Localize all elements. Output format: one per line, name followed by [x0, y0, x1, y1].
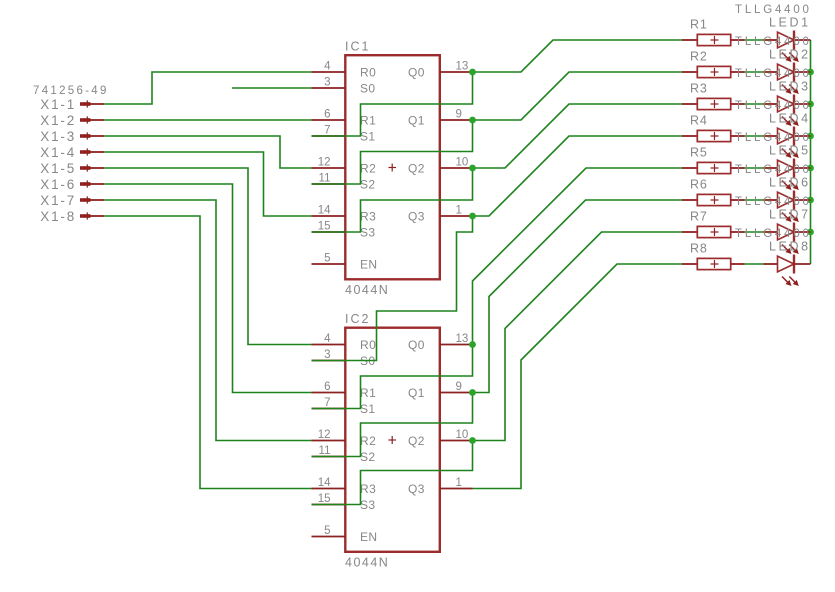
- svg-text:TLLG4400: TLLG4400: [735, 68, 812, 80]
- resistor R8: [682, 241, 745, 269]
- wire X1-1 to IC1 pin4 R0: [104, 72, 312, 104]
- svg-text:R1: R1: [360, 114, 376, 128]
- svg-text:741256-49: 741256-49: [33, 85, 109, 97]
- junction node J9: [807, 101, 814, 108]
- svg-text:S1: S1: [360, 130, 375, 144]
- wire IC1 Q1 feedback to pin11 S2: [312, 120, 473, 184]
- connector pin X1-6: [40, 177, 104, 192]
- svg-text:TLLG4400: TLLG4400: [735, 100, 812, 112]
- connector X1 header label 741256-49: [33, 85, 109, 97]
- svg-text:Q3: Q3: [408, 482, 425, 496]
- svg-text:12: 12: [318, 157, 331, 169]
- svg-text:IC1: IC1: [345, 39, 370, 53]
- svg-text:10: 10: [456, 157, 469, 169]
- IC1 left pin 11 (S2): [312, 173, 376, 192]
- junction node J6: [469, 389, 476, 396]
- connector pin X1-5: [40, 161, 104, 176]
- IC1 right pin 13 (Q0): [408, 61, 473, 80]
- svg-text:R6: R6: [690, 177, 708, 191]
- resistor R5: [682, 145, 745, 173]
- wire IC1 Q2 feedback to pin15 S3: [312, 168, 473, 232]
- wire X1-6 to IC2 pin6 R1: [104, 184, 312, 393]
- IC2 left pin 12 (R2): [312, 429, 377, 448]
- svg-text:S2: S2: [360, 450, 375, 464]
- resistor R3: [682, 81, 745, 109]
- svg-text:R5: R5: [690, 145, 708, 159]
- svg-text:TLLG4400: TLLG4400: [735, 228, 812, 240]
- junction node J4: [469, 213, 476, 220]
- LED5 TLLG4400: [735, 132, 812, 190]
- junction node J11: [807, 165, 814, 172]
- junction node J7: [469, 437, 476, 444]
- LED1 TLLG4400: [735, 4, 812, 62]
- svg-text:Q1: Q1: [408, 114, 425, 128]
- svg-text:1: 1: [456, 205, 462, 217]
- svg-text:13: 13: [456, 333, 469, 345]
- resistor R4: [682, 113, 745, 141]
- svg-text:EN: EN: [360, 258, 377, 272]
- svg-text:LED7: LED7: [769, 208, 811, 222]
- LED8 TLLG4400: [735, 228, 812, 286]
- LED3 TLLG4400: [735, 68, 812, 126]
- svg-text:R3: R3: [690, 81, 708, 95]
- wire R5 to LED5: [745, 167, 764, 169]
- svg-text:S3: S3: [360, 498, 375, 512]
- wire IC1 Q3 to IC2 pin3 S0: [312, 216, 473, 361]
- svg-text:IC2: IC2: [345, 312, 370, 326]
- svg-text:6: 6: [324, 381, 330, 393]
- svg-text:3: 3: [324, 77, 330, 89]
- svg-text:S3: S3: [360, 226, 375, 240]
- svg-text:4044N: 4044N: [345, 283, 389, 297]
- wire R7 to LED7: [745, 231, 764, 233]
- LED7 TLLG4400: [735, 196, 812, 254]
- IC2 left pin 5 (EN): [312, 525, 378, 544]
- svg-text:9: 9: [456, 381, 462, 393]
- IC1 polarity plus mark: [389, 164, 397, 172]
- svg-text:R1: R1: [360, 386, 376, 400]
- IC1 left pin 6 (R1): [312, 109, 377, 128]
- wire X1-2 to IC1 pin6 R1: [104, 119, 312, 121]
- wire R4 to LED4: [745, 135, 764, 137]
- svg-text:TLLG4400: TLLG4400: [735, 132, 812, 144]
- svg-text:R1: R1: [690, 17, 708, 31]
- wire IC1 Q0 to R1: [473, 40, 683, 72]
- wire IC1 Q3 to R4: [473, 136, 683, 216]
- connector pin X1-4: [40, 145, 104, 160]
- connector pin X1-7: [40, 193, 104, 208]
- junction node J1: [469, 69, 476, 76]
- wire R6 to LED6: [745, 199, 764, 201]
- svg-text:LED4: LED4: [769, 112, 811, 126]
- svg-text:15: 15: [318, 493, 331, 505]
- IC2 left pin 7 (S1): [312, 397, 376, 416]
- svg-text:Q3: Q3: [408, 210, 425, 224]
- svg-text:5: 5: [324, 525, 330, 537]
- svg-text:Q2: Q2: [408, 162, 425, 176]
- wire IC2 Q1 feedback to pin11 S2: [312, 393, 473, 457]
- junction node J2: [469, 117, 476, 124]
- IC2 left pin 3 (S0): [312, 349, 376, 368]
- resistor R6: [682, 177, 745, 205]
- IC2 left pin 14 (R3): [312, 477, 377, 496]
- wire X1-4 to IC1 pin14 R3: [104, 152, 312, 216]
- IC1 left pin 5 (EN): [312, 253, 378, 272]
- IC1 left pin 4 (R0): [312, 61, 377, 80]
- svg-text:14: 14: [318, 477, 331, 489]
- wire X1-8 to IC2 pin14 R3: [104, 216, 312, 489]
- svg-text:X1-2: X1-2: [40, 113, 76, 128]
- wire IC2 Q2 to R7: [473, 232, 683, 441]
- svg-text:11: 11: [319, 173, 331, 185]
- svg-text:7: 7: [324, 397, 330, 409]
- connector pin X1-1: [40, 97, 104, 112]
- wire IC1 Q2 to R3: [473, 104, 683, 168]
- wire LED cathode bus: [810, 40, 812, 264]
- svg-text:LED6: LED6: [769, 176, 811, 190]
- wire X1-7 to IC2 pin12 R2: [104, 200, 312, 441]
- svg-text:EN: EN: [360, 530, 377, 544]
- svg-text:X1-8: X1-8: [40, 209, 76, 224]
- svg-text:Q0: Q0: [408, 66, 425, 80]
- wire IC2 Q3 to R8: [473, 264, 683, 489]
- svg-text:12: 12: [318, 429, 331, 441]
- svg-text:LED8: LED8: [769, 240, 811, 254]
- svg-text:X1-7: X1-7: [40, 193, 76, 208]
- svg-text:R4: R4: [690, 113, 708, 127]
- IC2 left pin 4 (R0): [312, 333, 377, 352]
- wire IC1 Q0 feedback to pin7 S1: [312, 72, 473, 136]
- wire R2 to LED2: [745, 71, 764, 73]
- wire stub to IC1 pin3 S0: [232, 87, 312, 89]
- svg-text:R0: R0: [360, 66, 376, 80]
- resistor R1: [682, 17, 745, 45]
- svg-text:X1-1: X1-1: [40, 97, 76, 112]
- resistor R7: [682, 209, 745, 237]
- junction node J13: [807, 229, 814, 236]
- svg-text:Q1: Q1: [408, 386, 425, 400]
- svg-text:R7: R7: [690, 209, 708, 223]
- IC2 polarity plus mark: [389, 436, 397, 444]
- svg-text:X1-5: X1-5: [40, 161, 76, 176]
- svg-text:4: 4: [324, 333, 331, 345]
- svg-text:R2: R2: [690, 49, 708, 63]
- LED2 TLLG4400: [735, 36, 812, 94]
- svg-text:X1-3: X1-3: [40, 129, 76, 144]
- IC1 left pin 12 (R2): [312, 157, 377, 176]
- svg-text:Q2: Q2: [408, 434, 425, 448]
- junction node J3: [469, 165, 476, 172]
- junction node J8: [807, 69, 814, 76]
- svg-text:R0: R0: [360, 338, 376, 352]
- wire X1-5 to IC2 pin4 R0: [104, 168, 312, 345]
- svg-text:13: 13: [456, 61, 469, 73]
- svg-text:5: 5: [324, 253, 330, 265]
- svg-text:14: 14: [318, 205, 331, 217]
- junction node J12: [807, 197, 814, 204]
- connector pin X1-3: [40, 129, 104, 144]
- svg-text:6: 6: [324, 109, 330, 121]
- svg-text:S1: S1: [360, 402, 375, 416]
- wire R1 to LED1: [745, 39, 764, 41]
- IC2 4044N quad R/S latch: [345, 312, 440, 569]
- IC1 right pin 10 (Q2): [408, 157, 473, 176]
- svg-text:TLLG4400: TLLG4400: [735, 164, 812, 176]
- IC2 left pin 6 (R1): [312, 381, 377, 400]
- svg-text:9: 9: [456, 109, 462, 121]
- svg-text:R2: R2: [360, 162, 376, 176]
- svg-text:X1-4: X1-4: [40, 145, 76, 160]
- svg-text:4044N: 4044N: [345, 555, 389, 569]
- IC1 left pin 7 (S1): [312, 125, 376, 144]
- IC1 left pin 3 (S0): [312, 77, 376, 96]
- wire IC2 Q1 to R6: [473, 200, 683, 393]
- LED6 TLLG4400: [735, 164, 812, 222]
- IC2 right pin 9 (Q1): [408, 381, 473, 400]
- resistor R2: [682, 49, 745, 77]
- svg-text:10: 10: [456, 429, 469, 441]
- IC2 left pin 11 (S2): [312, 445, 376, 464]
- svg-text:TLLG4400: TLLG4400: [735, 36, 812, 48]
- IC2 right pin 1 (Q3): [408, 477, 473, 496]
- wire IC2 Q0 to R5: [473, 168, 683, 345]
- wire R8 to LED8: [745, 263, 764, 265]
- wire IC1 Q1 to R2: [473, 72, 683, 120]
- connector pin X1-8: [40, 209, 104, 224]
- IC2 right pin 10 (Q2): [408, 429, 473, 448]
- wire IC2 Q2 feedback to pin15 S3: [312, 441, 473, 505]
- svg-text:TLLG4400: TLLG4400: [735, 4, 812, 16]
- svg-text:R2: R2: [360, 434, 376, 448]
- IC1 left pin 15 (S3): [312, 221, 376, 240]
- svg-text:R3: R3: [360, 210, 376, 224]
- wire X1-3 to IC1 pin12 R2: [104, 136, 312, 168]
- svg-text:4: 4: [324, 61, 331, 73]
- svg-text:LED2: LED2: [769, 48, 811, 62]
- svg-text:15: 15: [318, 221, 331, 233]
- junction node J10: [807, 133, 814, 140]
- svg-text:R3: R3: [360, 482, 376, 496]
- svg-text:LED3: LED3: [769, 80, 811, 94]
- IC1 4044N quad R/S latch: [345, 39, 440, 296]
- svg-text:TLLG4400: TLLG4400: [735, 196, 812, 208]
- svg-text:S0: S0: [360, 82, 375, 96]
- IC1 right pin 1 (Q3): [408, 205, 473, 224]
- wire IC2 Q0 feedback to pin7 S1: [312, 345, 473, 409]
- IC2 right pin 13 (Q0): [408, 333, 473, 352]
- svg-text:R8: R8: [690, 241, 708, 255]
- svg-text:X1-6: X1-6: [40, 177, 76, 192]
- LED4 TLLG4400: [735, 100, 812, 158]
- IC2 left pin 15 (S3): [312, 493, 376, 512]
- IC1 right pin 9 (Q1): [408, 109, 473, 128]
- wire R3 to LED3: [745, 103, 764, 105]
- svg-text:S2: S2: [360, 178, 375, 192]
- svg-text:LED1: LED1: [769, 16, 811, 30]
- junction node J5: [469, 341, 476, 348]
- connector pin X1-2: [40, 113, 104, 128]
- svg-text:Q0: Q0: [408, 338, 425, 352]
- svg-text:7: 7: [324, 125, 330, 137]
- svg-text:1: 1: [456, 477, 462, 489]
- IC1 left pin 14 (R3): [312, 205, 377, 224]
- svg-text:3: 3: [324, 349, 330, 361]
- svg-text:LED5: LED5: [769, 144, 811, 158]
- svg-text:11: 11: [319, 445, 331, 457]
